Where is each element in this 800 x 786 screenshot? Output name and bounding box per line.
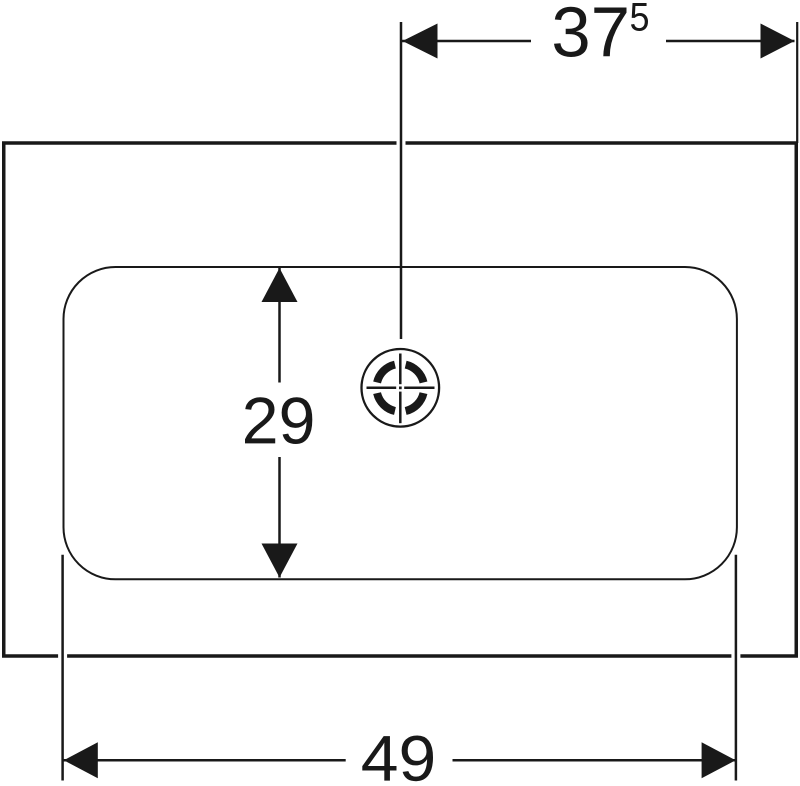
arrowhead 37.5 left (403, 24, 438, 59)
drain crosshair horizontal left segment (367, 387, 397, 390)
inner bowl rounded outline (64, 267, 737, 579)
dimension line 49 right segment (453, 759, 736, 762)
extension line: right edge for dimension 37.5 (796, 22, 798, 143)
label 29 (245, 397, 312, 444)
label 37 superscript 5 (631, 3, 648, 31)
basin outer outline (4, 143, 797, 656)
casing gap: left extension line through bottom edge (58, 648, 67, 663)
dimension line 29 lower segment (278, 457, 281, 578)
casing gap: drain centerline through top edge (397, 138, 406, 150)
drain inner ring arc NW (377, 365, 395, 383)
drain inner ring arc SW (377, 393, 395, 411)
drain outer circle (362, 349, 440, 427)
drain inner ring arc NE (406, 365, 424, 383)
arrowhead 49 left (64, 742, 98, 778)
dimension line 29 upper segment (278, 268, 281, 383)
dimension line 37.5 left segment (402, 40, 531, 43)
drain inner ring arc SE (406, 393, 424, 411)
drain crosshair center dot (399, 387, 402, 390)
casing gap: right extension line through bottom edge (731, 648, 740, 663)
extension line: drain centerline up to dimension 37.5 (400, 22, 403, 339)
drain crosshair horizontal right segment (404, 387, 434, 390)
arrowhead 29 bottom (262, 544, 298, 578)
arrowhead 29 top (262, 268, 298, 302)
arrowhead 37.5 right (761, 24, 795, 59)
drain crosshair vertical lower segment (399, 392, 402, 424)
extension line: bowl left for dimension 49 (61, 555, 64, 781)
drain crosshair vertical upper segment (399, 354, 402, 385)
dimension line 49 left segment (63, 759, 346, 762)
arrowhead 49 right (702, 742, 736, 778)
extension line: bowl right for dimension 49 (735, 555, 738, 781)
label 37 (554, 7, 627, 57)
label 49 (362, 736, 433, 782)
dimension line 37.5 right segment (666, 40, 795, 43)
